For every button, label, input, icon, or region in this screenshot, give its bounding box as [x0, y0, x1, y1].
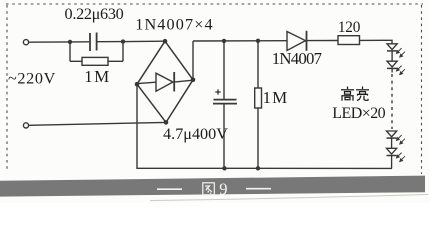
wire (D5 to R3)	[307, 40, 338, 42]
capacitor C2 4.7μ400V (electrolytic)	[213, 41, 237, 168]
svg-text:1M: 1M	[84, 67, 111, 86]
bridge rectifier D1-D4 (1N4007x4)	[137, 41, 193, 122]
node D (R2 top)	[256, 39, 260, 43]
wire (bridge right corner up to + rail)	[192, 41, 194, 80]
wire (bottom input: terminal to bridge bottom)	[29, 122, 166, 125]
svg-text:~220V: ~220V	[8, 70, 56, 88]
node bridge right	[191, 78, 196, 83]
svg-text:9: 9	[219, 179, 227, 198]
svg-text:4.7μ400V: 4.7μ400V	[163, 125, 228, 143]
LED4 emission arrows	[397, 153, 405, 162]
resistor R2 1M (bleeder)	[255, 41, 262, 169]
node A	[68, 40, 72, 44]
LED3 emission arrows	[397, 135, 405, 144]
node bridge left	[135, 82, 140, 87]
node bridge top	[163, 39, 168, 44]
LED2	[387, 61, 397, 72]
svg-text:0.22μ630: 0.22μ630	[65, 5, 124, 23]
resistor R3 120	[338, 36, 360, 45]
svg-text:LED×20: LED×20	[332, 105, 385, 122]
node bridge bottom	[164, 120, 169, 125]
svg-text:120: 120	[338, 19, 361, 36]
wire (capacitor C1 to node B)	[98, 41, 124, 43]
wire (node A to capacitor C1)	[70, 41, 89, 43]
LED4	[387, 148, 397, 168]
diode D5 1N4007	[287, 31, 307, 51]
wire (+ rail: bridge to diode D5)	[193, 40, 287, 42]
LED1 emission arrows	[397, 48, 405, 57]
wire (node B to bridge top)	[123, 40, 165, 42]
C2 polarity +	[215, 89, 220, 94]
LED2 emission arrows	[397, 66, 405, 75]
node C (C2 top)	[222, 39, 226, 43]
terminal T1 (line input)	[23, 40, 28, 45]
resistor R1 1M (parallel with C1)	[70, 42, 123, 66]
wire (R3 to LED string)	[360, 40, 393, 44]
LED1	[387, 44, 397, 61]
wire (top input: terminal to node A)	[29, 41, 70, 43]
wire (negative rail: bridge left corner down and along bottom)	[137, 84, 392, 168]
svg-text:1M: 1M	[263, 88, 289, 107]
LED3	[387, 131, 397, 148]
node E (C2 bottom)	[222, 166, 226, 170]
node F (R2 bottom)	[256, 166, 260, 170]
terminal T2 (line input)	[23, 123, 28, 128]
label 高亮 (high brightness, drawn strokes)	[341, 87, 369, 101]
svg-text:1N4007: 1N4007	[272, 49, 322, 68]
svg-text:1N4007×4: 1N4007×4	[135, 15, 214, 33]
wire (LED string continuation, dashed)	[391, 74, 393, 129]
node B	[121, 39, 125, 43]
bridge inner diode symbol	[139, 72, 192, 92]
capacitor C1 plates	[90, 33, 97, 52]
